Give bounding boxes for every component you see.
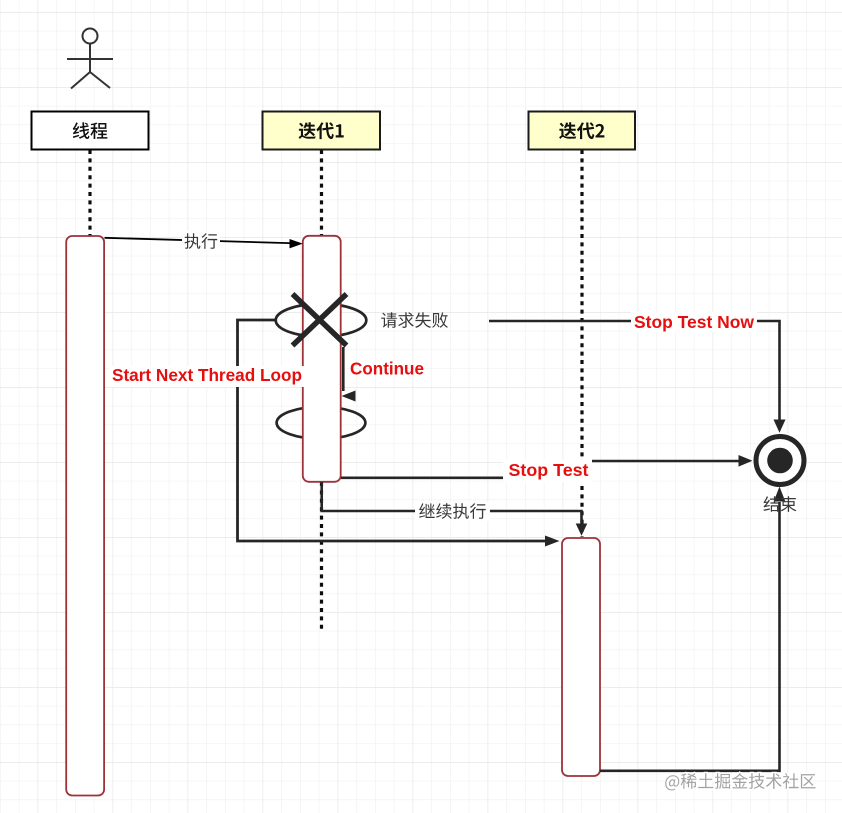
- svg-text:Continue: Continue: [350, 359, 424, 379]
- participant box 迭代2: [529, 112, 636, 150]
- label 请求失败: [381, 312, 448, 328]
- watermark: [665, 773, 815, 790]
- svg-text:Stop Test: Stop Test: [509, 460, 589, 480]
- end node 结束: [756, 437, 804, 485]
- return path to end node: [600, 487, 785, 771]
- message 执行: [105, 231, 303, 250]
- lifeline 线程 dotted: [88, 150, 91, 236]
- label Start Next Thread Loop: [109, 365, 305, 387]
- X failure mark: [293, 294, 347, 346]
- loop path Start Next Thread Loop: [238, 320, 560, 547]
- continue arrow: [342, 347, 356, 402]
- svg-text:Stop Test Now: Stop Test Now: [634, 312, 754, 332]
- message Stop Test: [341, 455, 753, 482]
- message Stop Test Now: [489, 312, 786, 433]
- lifeline 迭代2 dotted: [580, 150, 583, 537]
- participant box 迭代1: [263, 112, 381, 150]
- lifeline 迭代1 dotted upper: [320, 150, 323, 235]
- activation bar 线程: [66, 236, 104, 796]
- label 结束: [764, 496, 797, 512]
- self-loop ellipse upper: [276, 304, 367, 337]
- self-loop ellipse lower: [277, 407, 366, 439]
- lifeline 迭代1 dotted lower: [320, 482, 323, 630]
- activation bar 迭代1: [303, 236, 341, 482]
- message 继续执行: [322, 482, 588, 536]
- participant box 线程: [32, 112, 149, 150]
- svg-text:Start Next Thread Loop: Start Next Thread Loop: [112, 365, 302, 385]
- actor stick figure: [67, 29, 113, 89]
- activation bar 迭代2: [562, 538, 600, 776]
